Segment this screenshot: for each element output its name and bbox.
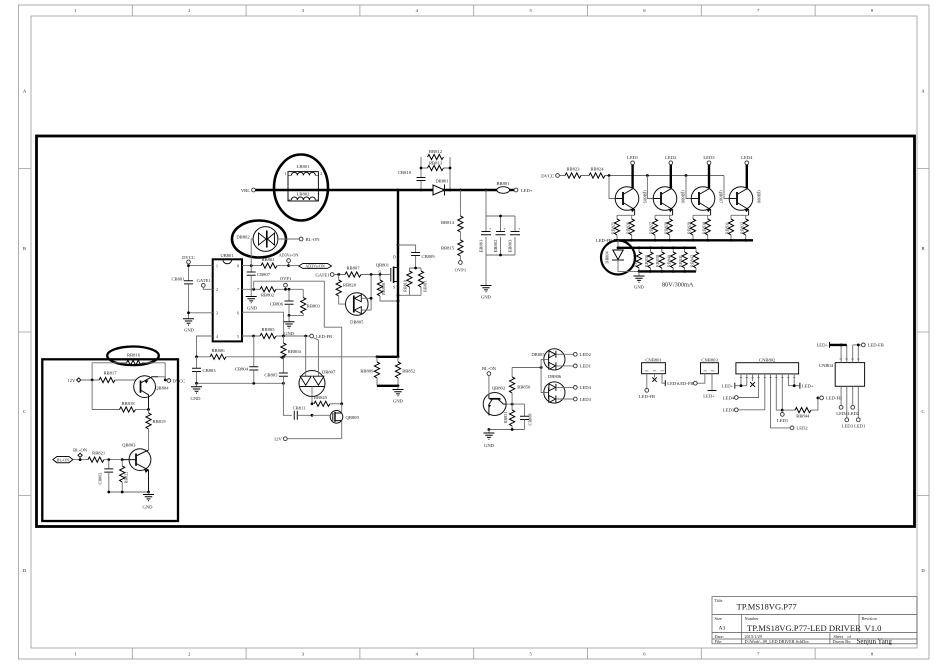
svg-text:LED2: LED2 <box>665 155 677 160</box>
svg-text:Number: Number <box>745 616 760 621</box>
resistor RB844 <box>782 398 818 418</box>
svg-text:CB804: CB804 <box>235 366 249 371</box>
wire ballast resistor top rail <box>618 247 696 249</box>
svg-text:LED4: LED4 <box>723 395 735 400</box>
svg-text:RB829: RB829 <box>687 222 692 234</box>
resistor RB819 <box>146 410 166 451</box>
svg-text:2: 2 <box>216 288 218 292</box>
resistor RB811 <box>418 271 427 292</box>
svg-text:RB830: RB830 <box>701 222 706 234</box>
svg-text:RB808: RB808 <box>381 283 386 295</box>
svg-text:LED1: LED1 <box>627 155 639 160</box>
wire sense bottom rail <box>377 385 398 387</box>
svg-text:Title: Title <box>715 598 723 603</box>
resistor RB826 <box>625 219 634 235</box>
node LED4 terminal <box>741 155 753 165</box>
inductor LB802 <box>288 172 318 201</box>
svg-text:QB804: QB804 <box>155 386 169 391</box>
svg-text:RB821: RB821 <box>92 450 106 455</box>
svg-text:QB809: QB809 <box>346 415 360 420</box>
svg-text:2: 2 <box>320 172 322 176</box>
wire pin7 comp node <box>242 288 260 290</box>
svg-text:D: D <box>393 256 396 260</box>
svg-text:CNB803: CNB803 <box>701 358 718 363</box>
svg-text:DB804: DB804 <box>605 251 610 264</box>
svg-text:RB825: RB825 <box>611 222 616 234</box>
transistor QB806 <box>653 187 685 216</box>
node LED2 terminal (return) <box>573 352 591 357</box>
svg-text:RB850: RB850 <box>517 384 531 389</box>
svg-text:TP.MS18VG.P77-LED DRIVER: TP.MS18VG.P77-LED DRIVER <box>747 623 861 633</box>
mosfet QB809 <box>312 404 359 439</box>
frame row ticks left <box>19 169 32 496</box>
wire pin1 / CB801 branch <box>189 264 213 319</box>
svg-text:OVP1: OVP1 <box>455 268 467 273</box>
svg-text:+: + <box>518 227 520 231</box>
wire QB808 emitter pair rails <box>731 215 749 240</box>
resistor RB804 <box>281 336 302 359</box>
node LED-FB terminal (CNB804) <box>853 343 884 348</box>
resistor RB807 <box>345 265 361 277</box>
diode DB801 <box>433 179 449 196</box>
resistor RB803 <box>289 298 321 316</box>
resistor RB839 <box>655 248 664 272</box>
frame column numbers bottom <box>74 651 874 656</box>
svg-text:RB845: RB845 <box>314 395 328 400</box>
svg-text:EB802: EB802 <box>493 239 498 252</box>
wire gate line <box>334 274 380 276</box>
svg-text:RB811: RB811 <box>422 280 427 292</box>
svg-text:Drawn By:: Drawn By: <box>833 639 852 644</box>
svg-text:LED3: LED3 <box>703 155 715 160</box>
node LED+ terminal <box>514 188 533 193</box>
capacitor CB810 <box>398 168 426 190</box>
inductor LB801 <box>284 164 322 176</box>
svg-text:QB805: QB805 <box>643 190 648 204</box>
wire comp to OVP run <box>254 281 342 404</box>
svg-text:RB807: RB807 <box>346 265 360 270</box>
svg-text:A3: A3 <box>719 626 726 632</box>
svg-text:Size: Size <box>715 616 722 621</box>
frame row letters right <box>921 89 925 574</box>
svg-text:Senjun Yang: Senjun Yang <box>857 638 893 646</box>
resistor RB838 <box>644 248 653 272</box>
svg-text:B: B <box>921 246 924 251</box>
svg-text:RB801: RB801 <box>261 257 275 262</box>
node LED-FB terminal (sense out) <box>818 396 842 401</box>
transistor QB802 <box>483 376 506 416</box>
connector CNB803 <box>697 358 718 391</box>
svg-text:RB824: RB824 <box>590 166 604 171</box>
frame row letters left <box>23 89 27 574</box>
resistor RB823 <box>565 166 581 178</box>
resistor RB809 <box>360 357 379 386</box>
diode DB805 (dual clamp at gate) <box>346 275 372 325</box>
svg-text:RB813: RB813 <box>429 161 443 166</box>
node OVP1 terminal <box>455 261 467 273</box>
ferrite bead BB801 <box>496 181 514 193</box>
wire sense rail <box>377 356 398 358</box>
svg-text:RB851: RB851 <box>503 412 508 424</box>
svg-text:CB808: CB808 <box>528 414 533 426</box>
svg-text:QB801: QB801 <box>376 263 390 268</box>
resistor RB828 <box>663 219 672 235</box>
capacitor CB801 <box>171 277 193 287</box>
node VBL terminal <box>241 188 256 193</box>
svg-text:RB816: RB816 <box>127 353 141 358</box>
svg-text:RB814: RB814 <box>441 220 455 225</box>
svg-text:S: S <box>393 286 395 290</box>
svg-text:DB806: DB806 <box>548 374 562 379</box>
node LED+ bar (CNB801) <box>665 380 679 386</box>
capacitor EB803 (electrolytic) <box>508 227 521 252</box>
node LED+ bar (CNB803) <box>703 391 716 399</box>
resistor RB820 <box>336 275 357 305</box>
resistor RB813 <box>421 161 450 190</box>
svg-text:File:: File: <box>715 639 723 644</box>
capacitor CB807 <box>247 266 271 297</box>
svg-text:4: 4 <box>216 335 218 339</box>
wire ballast resistor bottom rail <box>639 270 696 272</box>
resistor RB837 <box>632 248 641 272</box>
svg-text:12V: 12V <box>67 378 76 383</box>
node LED2 terminal (CNB802) <box>790 426 808 431</box>
node LED3 terminal (CNB802) <box>723 408 738 413</box>
svg-text:LED+: LED+ <box>722 384 734 389</box>
svg-text:RB820: RB820 <box>343 283 357 288</box>
svg-text:BL-ON: BL-ON <box>306 237 321 242</box>
svg-text:RB817: RB817 <box>103 371 117 376</box>
node LED1 terminal (CNB804) <box>854 418 866 428</box>
resistor RB814 <box>441 216 463 240</box>
wire drain/source bus <box>397 190 399 357</box>
svg-text:LED-FB: LED-FB <box>639 394 655 399</box>
capacitor CB804 <box>235 336 258 383</box>
node LED-FB terminal (CNB801) <box>639 388 655 398</box>
wire pin8 node <box>242 265 261 267</box>
svg-text:CB809: CB809 <box>422 254 436 259</box>
svg-text:1: 1 <box>284 172 286 176</box>
svg-text:RB812: RB812 <box>429 149 443 154</box>
junction dots ballast rails <box>638 246 641 249</box>
svg-text:LB801: LB801 <box>297 164 310 169</box>
svg-text:RB802: RB802 <box>261 293 275 298</box>
svg-text:2: 2 <box>188 651 190 656</box>
svg-text:RB852: RB852 <box>402 368 416 373</box>
transistor QB803 <box>122 443 151 493</box>
wire pin6 feedback <box>242 312 283 336</box>
node 12V terminal (sub box) <box>67 378 99 383</box>
capacitor EB802 (electrolytic) <box>493 227 506 252</box>
svg-text:LED1: LED1 <box>777 418 789 423</box>
node LED3 terminal (CNB804) <box>842 418 854 428</box>
wire DVCC base rail <box>559 175 724 177</box>
resistor RB842 <box>689 248 698 272</box>
resistor RB824 <box>589 166 605 178</box>
svg-text:RB806: RB806 <box>211 348 225 353</box>
node LED1 terminal <box>627 155 639 165</box>
svg-text:RB810: RB810 <box>403 280 408 292</box>
svg-text:LED2: LED2 <box>848 411 860 416</box>
svg-text:QB803: QB803 <box>122 443 136 448</box>
svg-text:GATE1: GATE1 <box>197 278 212 283</box>
svg-text:TP.MS18VG.P77: TP.MS18VG.P77 <box>737 602 798 612</box>
wire LED2 collector <box>670 165 672 189</box>
resistor RB830 <box>701 219 710 235</box>
svg-text:DB805: DB805 <box>350 320 364 325</box>
node LED4 terminal (return) <box>573 385 591 390</box>
svg-text:+: + <box>504 227 506 231</box>
svg-text:V1.0: V1.0 <box>865 623 882 633</box>
ground under CB807 <box>246 297 258 311</box>
frame column ticks bottom <box>132 648 815 659</box>
svg-text:Revision: Revision <box>862 616 878 621</box>
transistor QB807 <box>691 187 723 216</box>
transistor QB805 <box>615 187 647 216</box>
svg-text:RB827: RB827 <box>649 222 654 234</box>
ground comp filter <box>284 315 295 335</box>
node LED3 terminal (return) <box>573 397 591 402</box>
wire output cap bank branch <box>486 190 515 286</box>
svg-text:CNB04: CNB04 <box>819 363 834 368</box>
wire LED4 collector <box>746 165 748 189</box>
wire pin5 sense line <box>242 335 310 337</box>
node LED+ bar (CNB802 right) <box>788 383 814 389</box>
svg-text:LED+: LED+ <box>521 188 533 193</box>
svg-text:QB808: QB808 <box>757 190 762 204</box>
svg-text:80V/300mA: 80V/300mA <box>662 282 694 289</box>
svg-text:1: 1 <box>74 8 76 13</box>
node DVCC terminal (pin1) <box>182 255 195 264</box>
svg-text:12V: 12V <box>274 437 283 442</box>
svg-text:LED+: LED+ <box>816 343 828 348</box>
no-connect X CNB802 pin3 <box>750 382 755 387</box>
svg-text:DVCC: DVCC <box>173 378 186 383</box>
node LED+ bar (CNB802 left) <box>722 383 747 389</box>
svg-text:BL-ON: BL-ON <box>482 366 497 371</box>
svg-text:1: 1 <box>216 265 218 269</box>
resistor RB812 <box>421 149 450 168</box>
wire VBL main rail y=190 <box>255 189 497 191</box>
wire emitter bottom rail <box>109 491 149 493</box>
diode DB804 (circled zener) <box>601 240 639 274</box>
svg-text:RB803: RB803 <box>307 303 321 308</box>
wire decoupling bottom rail <box>197 382 284 384</box>
svg-text:UB801: UB801 <box>220 253 234 258</box>
svg-text:GND: GND <box>143 505 154 510</box>
title block texts <box>715 598 893 646</box>
connector CNB802 <box>736 358 799 428</box>
wire QB807 emitter pair rails <box>693 215 711 240</box>
svg-text:RB831: RB831 <box>725 222 730 234</box>
svg-text:LED2: LED2 <box>580 352 592 357</box>
svg-text:RB841: RB841 <box>678 255 683 267</box>
wire RB850 top to diode pair <box>512 367 541 369</box>
wire LED1 collector <box>631 165 633 189</box>
junction dot drain snubber <box>397 244 400 247</box>
capacitor CB806 <box>270 289 294 315</box>
svg-text:RB828: RB828 <box>663 222 668 234</box>
svg-text:GND: GND <box>634 285 645 290</box>
svg-text:RB805: RB805 <box>261 327 275 332</box>
node LED+ bar (CNB804) <box>816 342 846 348</box>
svg-text:RB832: RB832 <box>739 222 744 234</box>
resistor RB815 <box>441 240 463 261</box>
diode DB802 (circled dual, BL-ON detect) <box>232 221 299 266</box>
ground QB802 <box>483 430 494 449</box>
diode DB807 (circled dual) <box>299 336 336 404</box>
svg-text:B: B <box>23 246 26 251</box>
wire base drops to QB805..QB808 <box>609 176 729 199</box>
svg-text:CB803: CB803 <box>203 368 217 373</box>
resistor RB802 <box>260 287 303 298</box>
svg-text:LED4: LED4 <box>741 155 753 160</box>
node LED2 terminal (CNB804) <box>848 405 860 415</box>
connector CNB804 <box>819 345 865 418</box>
svg-text:GND: GND <box>484 443 495 448</box>
node GATE1 terminal (pin2) <box>197 278 213 289</box>
svg-text:7: 7 <box>237 288 239 292</box>
resistor RB825 <box>611 219 620 235</box>
node LED2 terminal <box>665 155 677 165</box>
transistor QB804 <box>134 376 169 410</box>
main schematic border <box>37 136 915 527</box>
frame column ticks top <box>132 5 815 16</box>
net flag AD3Vs-ON <box>289 264 332 269</box>
resistor RB801 <box>261 257 289 268</box>
svg-text:1: 1 <box>74 651 76 656</box>
wire QB806 emitter pair rails <box>655 215 673 240</box>
frame column numbers top <box>74 8 874 13</box>
svg-text:CNB801: CNB801 <box>645 358 662 363</box>
svg-text:LED-FB: LED-FB <box>677 381 693 386</box>
svg-text:DB805: DB805 <box>531 352 545 357</box>
svg-text:LED3: LED3 <box>723 408 735 413</box>
node LED1 terminal (return) <box>573 364 591 369</box>
svg-text:CB807: CB807 <box>257 272 271 277</box>
resistor RB827 <box>649 219 658 235</box>
junction dots RB812/13 nodes <box>420 167 423 170</box>
svg-text:2: 2 <box>188 8 190 13</box>
svg-text:QB802: QB802 <box>492 385 506 390</box>
svg-text:AD3Vs-ON: AD3Vs-ON <box>279 253 298 258</box>
svg-text:RB823: RB823 <box>566 166 580 171</box>
svg-text:VBL: VBL <box>241 188 250 193</box>
svg-text:GND: GND <box>481 295 492 300</box>
node LED3 terminal <box>703 155 715 165</box>
svg-text:LED-FB: LED-FB <box>826 396 842 401</box>
svg-text:RB818: RB818 <box>121 401 135 406</box>
svg-text:RB840: RB840 <box>667 255 672 267</box>
resistor RB852 <box>395 357 416 386</box>
svg-text:LED-FB: LED-FB <box>316 334 332 339</box>
diode DB806 (LED return OR, lower) <box>541 368 573 404</box>
node BL-ON terminal (QB802) <box>482 366 497 375</box>
resistor RB841 <box>678 248 687 272</box>
node LED4 terminal (CNB804) <box>836 405 848 415</box>
capacitor CB802 <box>98 460 114 492</box>
svg-text:RB822: RB822 <box>123 472 128 484</box>
capacitor CB809 <box>398 245 435 268</box>
resistor RB851 <box>503 404 515 429</box>
svg-text:GND: GND <box>393 399 404 404</box>
svg-text:C: C <box>23 409 26 414</box>
svg-text:8: 8 <box>237 265 239 269</box>
node 12V terminal <box>274 437 342 442</box>
svg-text:LED3: LED3 <box>580 397 592 402</box>
wire QB805 emitter pair rails <box>617 215 635 240</box>
svg-text:RB844: RB844 <box>796 413 810 418</box>
resistor RB831 <box>725 219 734 235</box>
svg-text:GND: GND <box>284 331 295 336</box>
svg-text:OVP1: OVP1 <box>280 276 292 281</box>
capacitor CB808 <box>520 404 533 429</box>
svg-text:QB807: QB807 <box>719 190 724 204</box>
resistor RB805 <box>260 327 276 339</box>
junction dots gate line <box>337 273 340 276</box>
wire down to CB811 <box>283 383 292 415</box>
svg-text:CB805: CB805 <box>264 373 278 378</box>
svg-text:GATE1: GATE1 <box>315 272 330 277</box>
junction dots base rail <box>608 174 611 177</box>
capacitor CB803 <box>192 357 216 384</box>
resistor RB808 <box>377 275 398 302</box>
wire LED-FB sense rail <box>614 239 753 241</box>
svg-text:CB802: CB802 <box>98 473 103 485</box>
node BL-ON terminal (diamond) <box>73 447 88 459</box>
svg-text:D:\Work\..09_LED DRIVER.SchDoc: D:\Work\..09_LED DRIVER.SchDoc <box>745 639 810 644</box>
ground pin3 <box>183 319 195 333</box>
svg-text:DB802: DB802 <box>236 234 250 239</box>
transistor QB808 <box>729 187 761 216</box>
svg-text:BL-ON: BL-ON <box>57 457 69 462</box>
resistor RB816 (circled) <box>92 347 165 381</box>
svg-text:CB806: CB806 <box>270 301 284 306</box>
svg-text:LED+: LED+ <box>703 393 715 398</box>
ground sub box <box>143 492 154 510</box>
svg-text:RB838: RB838 <box>644 255 649 267</box>
svg-text:+: + <box>489 227 491 231</box>
svg-text:LED4: LED4 <box>836 411 848 416</box>
IC UB801 <box>213 253 242 342</box>
svg-text:DB801: DB801 <box>435 179 449 184</box>
wire QB802 collector to RB850 <box>506 403 524 405</box>
diode DB805 (LED return OR, upper) <box>531 349 573 370</box>
node DVCC terminal (base rail) <box>541 174 559 179</box>
svg-text:LED1: LED1 <box>580 364 592 369</box>
wire pin4 timing <box>197 336 213 357</box>
svg-text:LED+: LED+ <box>802 384 814 389</box>
resistor RB850 <box>509 368 531 405</box>
svg-text:DB807: DB807 <box>322 369 336 374</box>
resistor RB845 <box>314 395 342 406</box>
resistor RB822 <box>120 460 129 492</box>
mosfet QB801 <box>376 256 398 290</box>
frame row ticks right <box>917 169 929 496</box>
node LED-FB terminal <box>310 334 332 339</box>
svg-text:C: C <box>921 409 924 414</box>
wire snubber resistor rails <box>398 268 421 295</box>
title block outline <box>712 597 917 644</box>
svg-text:LB802: LB802 <box>297 191 310 196</box>
node DVCC terminal (sub box) <box>165 378 185 383</box>
no-connect X CNB801 pin2 <box>652 377 656 381</box>
svg-text:RB809: RB809 <box>360 368 374 373</box>
resistor RB840 <box>667 248 676 272</box>
svg-text:DVCC: DVCC <box>182 255 195 260</box>
ground under cap bank <box>481 286 492 300</box>
junction dots cap bank <box>499 215 502 218</box>
